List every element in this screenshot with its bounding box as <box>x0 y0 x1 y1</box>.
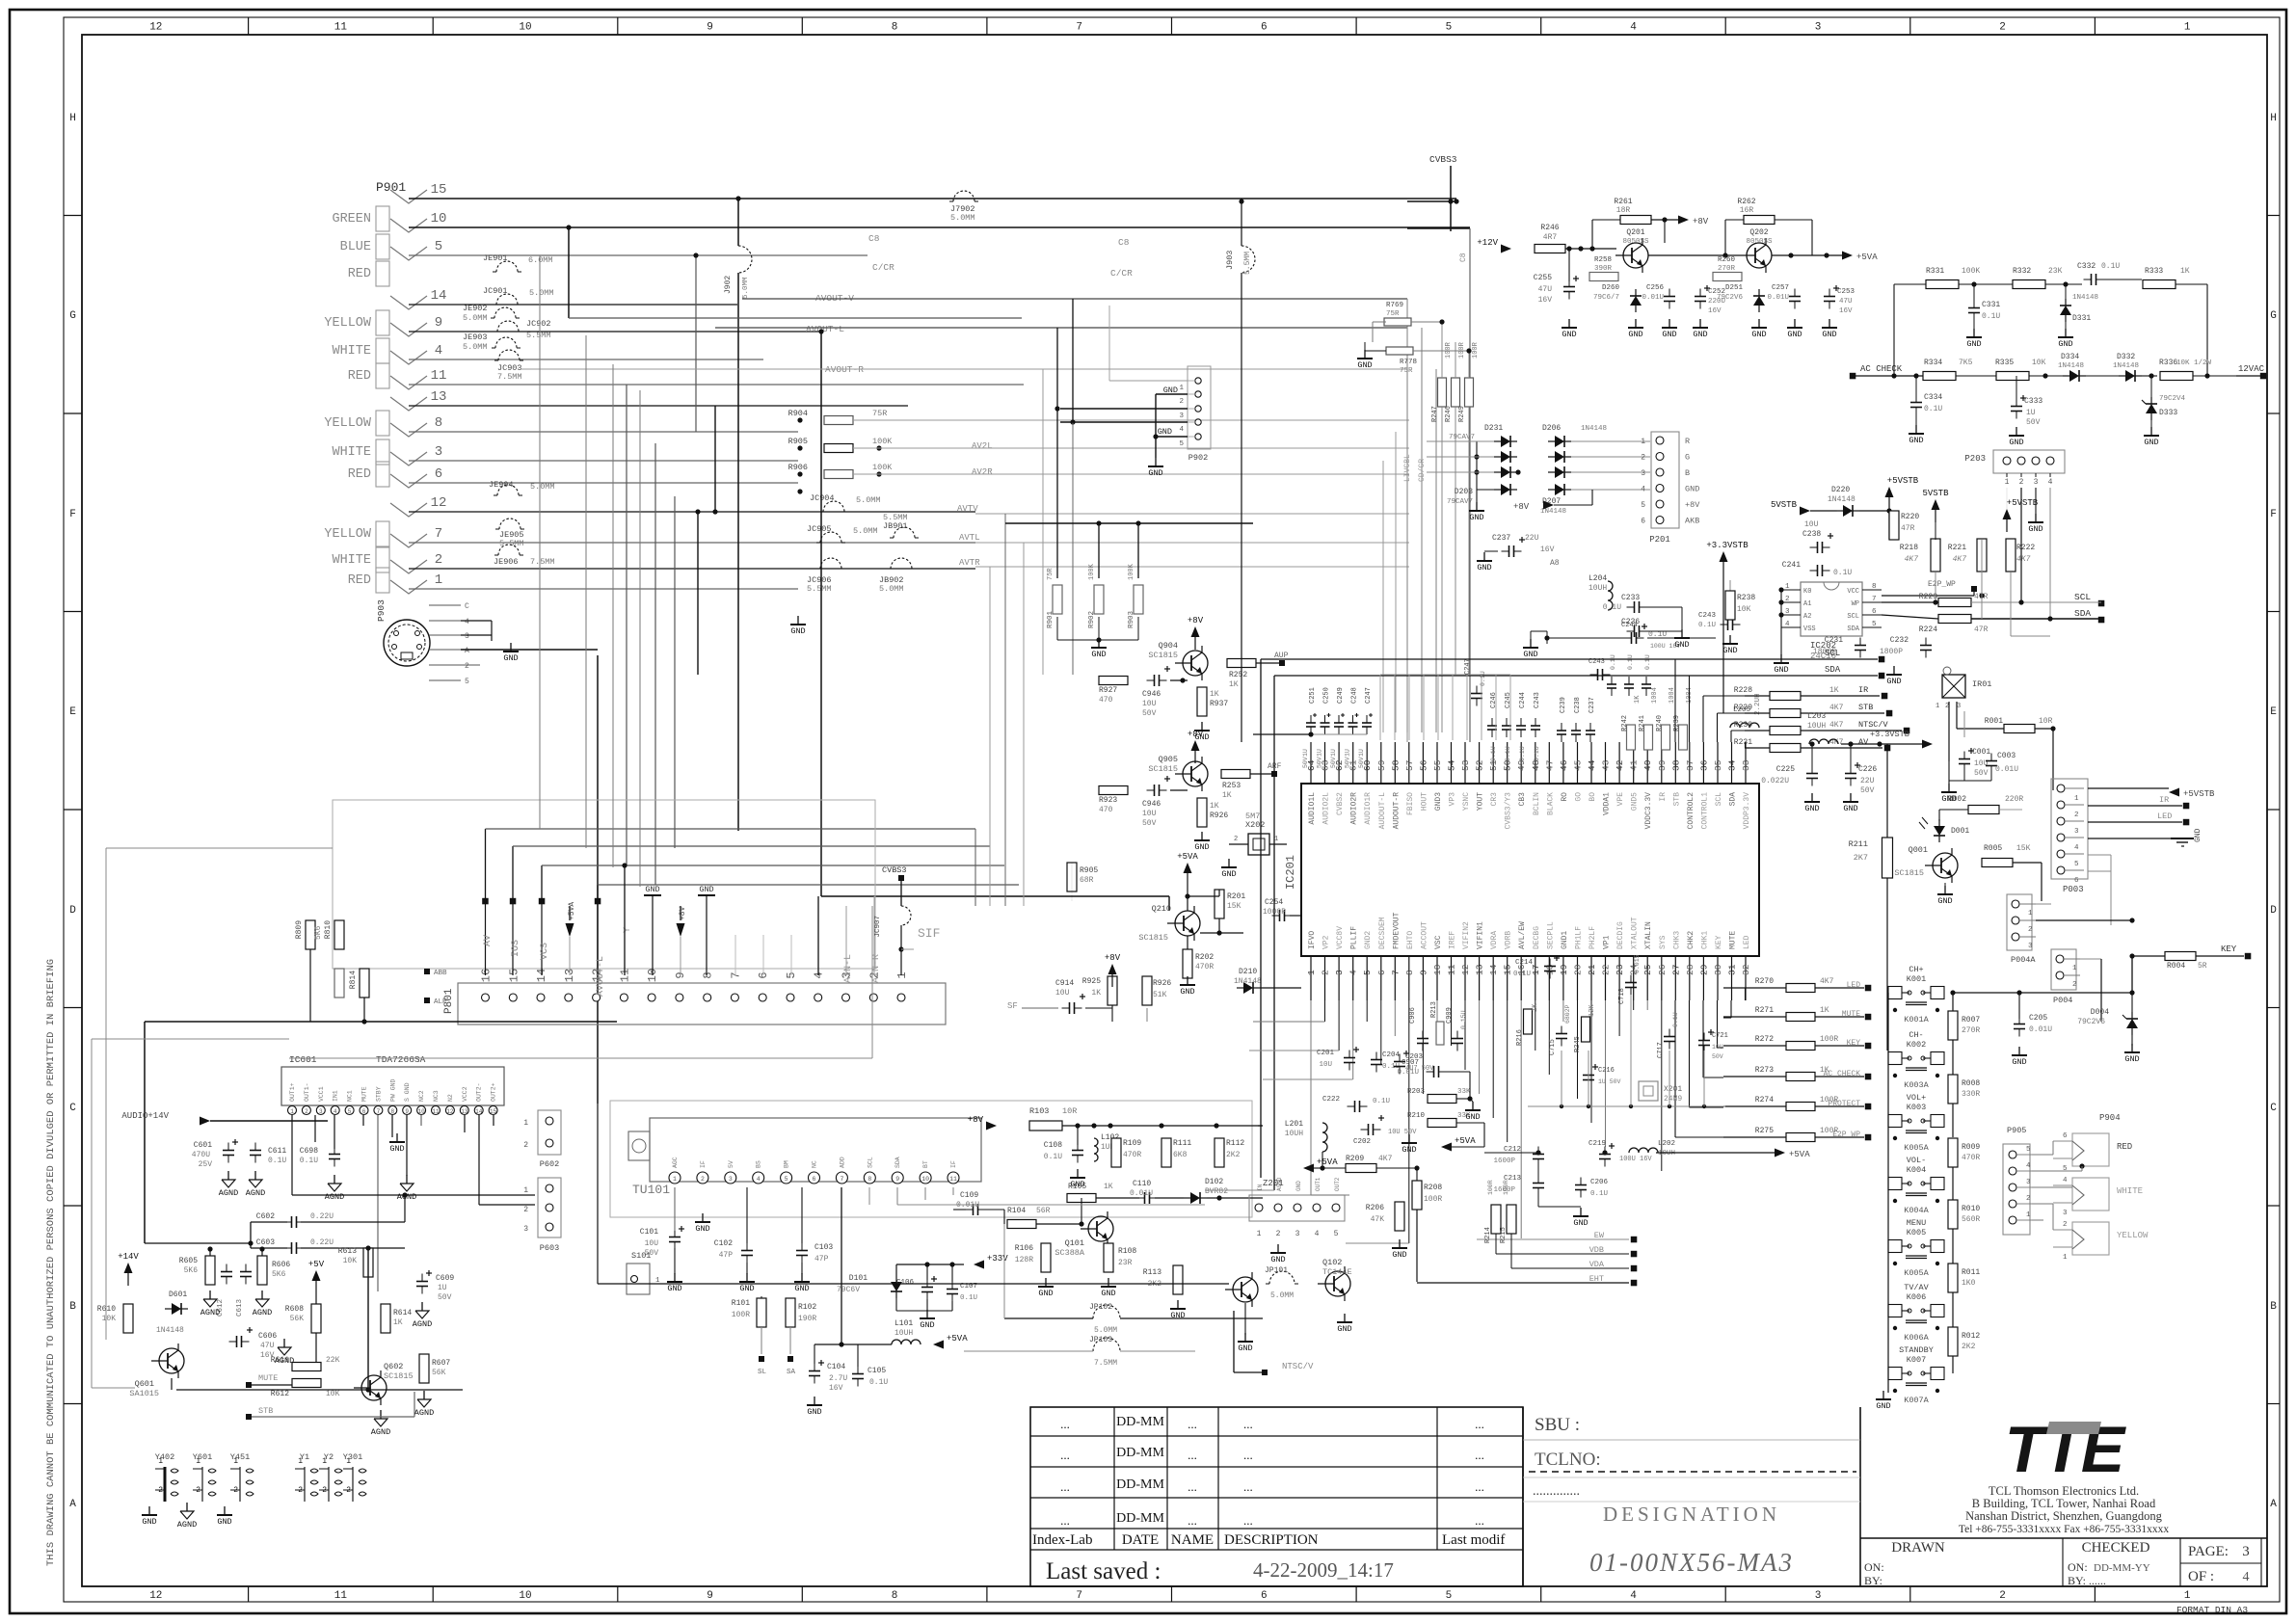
resistor R902 <box>1094 585 1104 614</box>
svg-text:GND: GND <box>1221 869 1236 879</box>
svg-text:1U: 1U <box>1317 749 1323 757</box>
svg-text:79C2V6: 79C2V6 <box>2077 1018 2105 1026</box>
svg-text:IF: IF <box>700 1160 707 1168</box>
capacitor C601 <box>223 1150 234 1152</box>
svg-text:K006A: K006A <box>1904 1333 1929 1343</box>
resistor R101 <box>757 1298 766 1327</box>
svg-text:K003: K003 <box>1907 1103 1926 1112</box>
svg-text:R216: R216 <box>1516 1029 1524 1046</box>
power 5VSTB label left <box>1800 507 1810 516</box>
resistor R109 <box>1111 1138 1121 1167</box>
svg-text:K005A: K005A <box>1904 1268 1929 1278</box>
connector Z201 <box>1249 1177 1345 1238</box>
svg-text:BM: BM <box>784 1160 790 1168</box>
resistor R608 <box>311 1304 321 1333</box>
inductor L101 <box>892 1340 921 1344</box>
resistor R904 <box>824 416 853 425</box>
svg-text:R242: R242 <box>1621 715 1629 732</box>
svg-text:11: 11 <box>1447 964 1457 975</box>
svg-text:SDA: SDA <box>1729 792 1738 807</box>
svg-text:24M9: 24M9 <box>1664 1095 1682 1104</box>
wire bus join to IC top <box>1380 675 1510 742</box>
svg-text:9: 9 <box>895 1176 899 1183</box>
svg-text:R102: R102 <box>798 1303 816 1312</box>
svg-text:BVR82: BVR82 <box>1205 1187 1228 1196</box>
svg-text:L202: L202 <box>1658 1140 1675 1148</box>
svg-text:0.1U: 0.1U <box>1490 746 1497 761</box>
svg-text:5: 5 <box>1334 1230 1339 1238</box>
svg-text:59: 59 <box>1376 759 1387 771</box>
svg-text:47U: 47U <box>1538 285 1553 294</box>
svg-text:AUDIO1L: AUDIO1L <box>1308 792 1317 825</box>
ground C331 <box>1973 329 1975 337</box>
resistor R105 <box>1067 1194 1096 1203</box>
svg-text:R012: R012 <box>1962 1332 1980 1341</box>
capacitor C103 <box>796 1250 808 1252</box>
jumper JE904 <box>497 485 519 495</box>
svg-text:R246: R246 <box>1540 224 1559 232</box>
capacitor C605 <box>236 1336 238 1347</box>
svg-text:DD-MM: DD-MM <box>1116 1446 1164 1460</box>
svg-text:R901: R901 <box>1047 610 1055 628</box>
svg-text:33: 33 <box>1741 759 1751 771</box>
svg-text:47U: 47U <box>260 1342 275 1350</box>
svg-text:470U: 470U <box>192 1151 210 1159</box>
svg-text:7K5: 7K5 <box>1959 359 1973 367</box>
resistor R229 STB <box>1770 709 1801 718</box>
ground Y451 <box>224 1506 226 1515</box>
svg-text:R220: R220 <box>1901 513 1919 521</box>
switch K001 CH+ <box>1888 965 1944 1024</box>
svg-text:5R: 5R <box>2198 962 2207 971</box>
svg-text:0.1U: 0.1U <box>300 1157 318 1165</box>
diode D210 <box>1243 982 1253 994</box>
resistor R333 <box>2143 280 2176 289</box>
svg-text:C331: C331 <box>1982 301 2000 309</box>
svg-text:1600P: 1600P <box>1493 1157 1515 1165</box>
resistor R106 <box>1041 1243 1051 1272</box>
svg-text:79CAV7: 79CAV7 <box>1447 498 1473 506</box>
svg-text:ABB: ABB <box>434 970 447 977</box>
svg-text:10U: 10U <box>1055 989 1070 998</box>
svg-text:0.01U: 0.01U <box>1995 765 2018 774</box>
svg-text:D333: D333 <box>2159 409 2177 417</box>
capacitor C914 <box>1069 1002 1071 1014</box>
svg-text:STBY: STBY <box>375 1086 382 1102</box>
svg-text:SCL: SCL <box>1825 649 1840 658</box>
resistor R903 <box>1134 585 1143 614</box>
svg-text:12VAC: 12VAC <box>2238 364 2265 374</box>
svg-text:C206: C206 <box>1590 1179 1609 1186</box>
svg-text:0.1U: 0.1U <box>1610 654 1616 670</box>
net labels top bus <box>806 233 1133 568</box>
svg-text:R614: R614 <box>393 1309 412 1317</box>
svg-text:GND: GND <box>1787 330 1802 339</box>
svg-text:VPE: VPE <box>1616 792 1625 807</box>
svg-text:PROTECT: PROTECT <box>1828 1100 1860 1108</box>
svg-text:C602: C602 <box>256 1212 275 1221</box>
svg-text:...: ... <box>1243 1479 1253 1494</box>
jumper JE902 <box>494 307 516 318</box>
svg-text:4: 4 <box>2048 478 2053 487</box>
svg-text:CVBS2: CVBS2 <box>1336 792 1345 815</box>
svg-text:GND: GND <box>1180 987 1194 997</box>
ground C907 <box>1472 1102 1474 1110</box>
svg-text:3: 3 <box>1641 469 1645 478</box>
svg-text:45: 45 <box>1573 759 1584 771</box>
svg-text:J903: J903 <box>1225 251 1235 270</box>
svg-text:B: B <box>1685 468 1690 478</box>
svg-text:G: G <box>69 310 76 322</box>
capacitor C717 <box>1664 1036 1675 1038</box>
svg-text:CB3: CB3 <box>1518 792 1527 807</box>
svg-text:22K: 22K <box>326 1356 340 1365</box>
svg-text:GND: GND <box>2009 438 2023 447</box>
power +5VA L201 <box>1303 1164 1314 1173</box>
svg-text:R209: R209 <box>1346 1155 1364 1163</box>
svg-text:10: 10 <box>519 1590 531 1602</box>
switch K003 VOL+ <box>1888 1093 1944 1153</box>
svg-text:SC1815: SC1815 <box>1148 764 1178 774</box>
svg-text:100R: 100R <box>1472 341 1480 359</box>
resistor R246 <box>1535 245 1565 253</box>
diode D601 <box>172 1303 181 1315</box>
svg-text:C333: C333 <box>2024 397 2042 406</box>
svg-text:+8V: +8V <box>968 1115 984 1125</box>
resistor R005 <box>1982 859 2013 867</box>
capacitor C721 <box>1698 1040 1710 1042</box>
svg-text:C225: C225 <box>1776 765 1795 774</box>
resistor R610 <box>123 1304 133 1333</box>
svg-text:JP102: JP102 <box>1089 1303 1112 1312</box>
capacitor C243 top <box>1597 669 1599 680</box>
svg-text:15: 15 <box>431 182 447 198</box>
svg-text:ADD: ADD <box>839 1157 845 1168</box>
svg-text:BLUE: BLUE <box>340 240 371 254</box>
svg-text:AC CHECK: AC CHECK <box>1860 364 1903 374</box>
svg-text:C241: C241 <box>1782 561 1801 570</box>
ground AGND C611 <box>254 1171 256 1180</box>
svg-text:CH+: CH+ <box>1909 965 1923 974</box>
svg-text:3: 3 <box>1785 608 1790 616</box>
wire P203 pins down <box>1933 488 2052 636</box>
svg-text:GND3: GND3 <box>1434 792 1443 811</box>
svg-text:VSC: VSC <box>1434 935 1443 949</box>
svg-text:5.0MM: 5.0MM <box>742 277 750 299</box>
resistor R113 <box>1173 1265 1183 1294</box>
jumper JE901 <box>496 261 518 272</box>
power +5VA arrow P801 pin13 <box>566 902 577 975</box>
resistor R331 <box>1926 280 1959 289</box>
diode D203 <box>1501 484 1510 495</box>
capacitor C105 <box>852 1373 864 1375</box>
svg-text:...: ... <box>1060 1513 1070 1528</box>
svg-text:10: 10 <box>1432 964 1443 975</box>
svg-text:+3.3VSTB: +3.3VSTB <box>1870 730 1909 739</box>
svg-text:GND: GND <box>1843 804 1857 813</box>
svg-text:K001A: K001A <box>1904 1015 1929 1024</box>
svg-text:...: ... <box>1188 1448 1197 1462</box>
svg-text:16R: 16R <box>1740 206 1754 215</box>
svg-text:F: F <box>69 509 76 520</box>
svg-text:GND: GND <box>1562 330 1576 339</box>
wire IC202 left rail <box>1778 587 1783 655</box>
svg-text:5VSTB: 5VSTB <box>1771 500 1798 510</box>
svg-text:470: 470 <box>1099 696 1113 705</box>
svg-text:1: 1 <box>1785 583 1790 591</box>
svg-text:Nanshan District, Shenzhen, Gu: Nanshan District, Shenzhen, Guangdong <box>1965 1509 2163 1523</box>
ground P801 pin8 <box>698 885 715 975</box>
svg-text:K005: K005 <box>1907 1228 1926 1237</box>
resistor R259 <box>1589 273 1618 281</box>
svg-text:K007A: K007A <box>1904 1396 1929 1405</box>
resistor R270 LED <box>1723 977 1871 993</box>
ground Q201 cluster <box>1562 319 1708 339</box>
svg-text:C204: C204 <box>1382 1051 1401 1059</box>
resistor R923 <box>1099 786 1128 795</box>
svg-text:R240: R240 <box>1656 715 1664 732</box>
svg-text:R253: R253 <box>1222 782 1241 790</box>
ground AGND pin8 <box>406 1175 408 1184</box>
svg-text:C606: C606 <box>258 1332 277 1341</box>
svg-text:2: 2 <box>2019 478 2024 487</box>
connector P602 <box>523 1110 561 1169</box>
svg-text:C105: C105 <box>868 1367 886 1375</box>
svg-text:Y1: Y1 <box>300 1452 309 1462</box>
svg-text:4K7: 4K7 <box>1829 704 1844 712</box>
resistor R108 <box>1104 1243 1113 1272</box>
svg-text:1K: 1K <box>393 1318 403 1327</box>
svg-text:79C2V6: 79C2V6 <box>1717 294 1744 302</box>
svg-text:Tel +86-755-3331xxxx Fax +86-: Tel +86-755-3331xxxx Fax +86-755-3331xxx… <box>1959 1524 2169 1535</box>
svg-text:YOUT: YOUT <box>1477 792 1485 811</box>
wire AV2 node <box>92 949 617 1243</box>
capacitor C102 <box>741 1250 753 1252</box>
svg-text:56K: 56K <box>290 1315 305 1323</box>
resistor R905b <box>1067 863 1077 891</box>
svg-text:3: 3 <box>2028 943 2033 950</box>
svg-text:+8V: +8V <box>679 906 687 920</box>
svg-text:...: ... <box>1475 1417 1484 1431</box>
svg-text:AGND: AGND <box>219 1188 238 1198</box>
svg-text:79CAV7: 79CAV7 <box>1449 434 1475 441</box>
resistor R011 <box>1948 1264 1958 1292</box>
svg-text:J902: J902 <box>724 276 733 294</box>
svg-text:JE902: JE902 <box>463 304 488 313</box>
svg-text:1: 1 <box>895 971 909 978</box>
svg-text:XTALOUT: XTALOUT <box>1631 917 1640 949</box>
svg-text:AC CHECK: AC CHECK <box>1824 1070 1861 1078</box>
resistor R926c <box>1142 976 1152 1005</box>
svg-text:1K: 1K <box>1210 802 1219 811</box>
svg-text:16V: 16V <box>829 1384 843 1393</box>
svg-text:AGND: AGND <box>246 1188 265 1198</box>
svg-text:8050SS: 8050SS <box>1746 238 1773 246</box>
capacitor C257 <box>1789 296 1801 298</box>
svg-text:1N4148: 1N4148 <box>1540 508 1566 516</box>
svg-text:5.5MM: 5.5MM <box>883 513 908 522</box>
svg-text:7: 7 <box>1076 22 1082 34</box>
svg-text:TU101: TU101 <box>632 1183 670 1197</box>
capacitor C946b <box>1154 785 1156 796</box>
svg-text:PLLIF: PLLIF <box>1350 926 1359 949</box>
svg-text:2: 2 <box>1785 596 1790 603</box>
svg-text:R005: R005 <box>1984 844 2002 853</box>
svg-text:C216: C216 <box>1598 1067 1615 1075</box>
svg-text:C909: C909 <box>1446 1007 1454 1024</box>
svg-text:GND: GND <box>217 1517 231 1527</box>
svg-text:GND: GND <box>1822 330 1836 339</box>
svg-text:8: 8 <box>390 1108 394 1115</box>
svg-text:21: 21 <box>1587 964 1597 975</box>
wire tuner pin10-11 <box>924 1187 926 1200</box>
svg-text:1: 1 <box>2063 1254 2068 1262</box>
svg-text:IF: IF <box>950 1160 957 1168</box>
svg-text:JC907: JC907 <box>874 916 882 938</box>
capacitor C001 <box>1959 758 1970 760</box>
svg-text:C237: C237 <box>1492 534 1510 543</box>
svg-text:31: 31 <box>1727 964 1738 975</box>
power +5VSTB P203 <box>2003 509 2012 519</box>
svg-text:VP2: VP2 <box>1322 935 1331 949</box>
svg-text:10: 10 <box>431 211 447 226</box>
svg-text:HOUT: HOUT <box>1420 792 1428 811</box>
svg-text:330R: 330R <box>1962 1090 1980 1099</box>
svg-text:C102: C102 <box>714 1239 733 1248</box>
svg-text:8: 8 <box>1404 970 1415 975</box>
wire stair bus verticals <box>486 196 824 1104</box>
svg-text:5: 5 <box>1362 970 1373 975</box>
svg-text:2: 2 <box>1276 1230 1281 1238</box>
svg-text:OUT1-: OUT1- <box>304 1082 310 1102</box>
svg-text:1U: 1U <box>438 1284 447 1292</box>
svg-text:2: 2 <box>1234 836 1238 843</box>
svg-text:R814: R814 <box>349 971 358 989</box>
svg-text:C214: C214 <box>1515 959 1534 967</box>
svg-text:AGND: AGND <box>414 1408 434 1418</box>
svg-text:R923: R923 <box>1099 796 1117 805</box>
svg-text:K001: K001 <box>1907 974 1926 984</box>
svg-text:GND: GND <box>389 1144 404 1154</box>
resistor R242 <box>1627 725 1636 750</box>
svg-text:BCLIN: BCLIN <box>1533 792 1541 815</box>
svg-text:0.1U: 0.1U <box>1603 603 1621 612</box>
svg-text:13: 13 <box>1475 964 1485 975</box>
svg-text:11: 11 <box>949 1176 957 1183</box>
svg-text:5.0MM: 5.0MM <box>1094 1326 1117 1335</box>
resistor R203 <box>1428 1095 1456 1104</box>
svg-text:C205: C205 <box>2029 1014 2047 1023</box>
connector P901 <box>324 180 446 594</box>
capacitor C253 <box>1824 296 1835 298</box>
svg-text:30: 30 <box>1713 964 1723 975</box>
svg-text:..............: .............. <box>1533 1484 1580 1499</box>
resistor R607 <box>419 1354 429 1383</box>
svg-text:R101: R101 <box>732 1299 750 1308</box>
svg-text:470R: 470R <box>1962 1154 1980 1162</box>
svg-text:AV2R: AV2R <box>972 467 993 477</box>
wire SIF run <box>289 906 1147 1058</box>
svg-text:GND: GND <box>1469 513 1483 522</box>
svg-text:1: 1 <box>2005 478 2010 487</box>
svg-text:25: 25 <box>1642 964 1653 975</box>
resistor R009 <box>1948 1138 1958 1167</box>
crystal Y402 <box>164 1467 167 1502</box>
svg-text:GND: GND <box>1194 842 1209 852</box>
resistor R937 <box>1197 687 1207 716</box>
svg-text:220R: 220R <box>2005 795 2023 804</box>
svg-text:C237: C237 <box>1589 697 1596 713</box>
svg-text:NC1: NC1 <box>347 1090 354 1102</box>
svg-text:58: 58 <box>1390 759 1401 771</box>
svg-text:0.1U: 0.1U <box>1480 671 1486 686</box>
svg-text:GND: GND <box>1038 1289 1053 1298</box>
svg-text:0.1U: 0.1U <box>1519 746 1526 761</box>
svg-text:GND: GND <box>739 1284 754 1293</box>
svg-text:40: 40 <box>1642 759 1653 771</box>
svg-text:AGND: AGND <box>413 1319 432 1329</box>
diode D260 <box>1630 296 1642 306</box>
svg-text:P903: P903 <box>376 599 387 622</box>
svg-text:1: 1 <box>2184 22 2191 34</box>
svg-text:LED: LED <box>1743 935 1751 949</box>
svg-text:L201: L201 <box>1285 1120 1303 1129</box>
wire P801 small stubs <box>735 896 818 975</box>
ground TU101 pin2 <box>702 1213 704 1222</box>
svg-text:+5VSTB: +5VSTB <box>1887 476 1919 486</box>
svg-text:DECSDEM: DECSDEM <box>1378 917 1387 949</box>
svg-text:YELLOW: YELLOW <box>324 527 372 542</box>
svg-text:5.0MM: 5.0MM <box>879 584 904 594</box>
capacitor C243b <box>1727 619 1729 630</box>
ground C202 <box>1408 1134 1410 1143</box>
svg-text:100R: 100R <box>1445 341 1453 359</box>
svg-text:C250: C250 <box>1323 687 1331 704</box>
ground C103 <box>801 1273 803 1282</box>
svg-text:18R: 18R <box>1616 206 1631 215</box>
svg-text:AVOUT-L: AVOUT-L <box>596 956 606 997</box>
svg-text:C721: C721 <box>1712 1032 1728 1040</box>
wire jumper runs <box>964 1224 1263 1351</box>
svg-text:100R: 100R <box>1458 341 1466 359</box>
svg-text:5.0MM: 5.0MM <box>530 482 555 492</box>
svg-text:GND: GND <box>1337 1324 1351 1334</box>
svg-text:C603: C603 <box>256 1238 275 1247</box>
svg-text:VDRB: VDRB <box>1505 931 1513 949</box>
svg-text:6: 6 <box>362 1108 366 1115</box>
jumper JE906 <box>498 545 520 555</box>
svg-text:PW GND: PW GND <box>389 1078 396 1102</box>
svg-text:0.1U: 0.1U <box>1505 746 1511 761</box>
svg-text:C003: C003 <box>1997 752 2016 760</box>
svg-text:0.022U: 0.022U <box>1761 777 1789 785</box>
svg-text:P201: P201 <box>1649 535 1670 545</box>
wire bottom long rail <box>479 1104 1229 1390</box>
svg-text:CR3: CR3 <box>1490 792 1499 807</box>
svg-text:R211: R211 <box>1849 839 1868 849</box>
svg-text:WHITE: WHITE <box>332 445 371 460</box>
capacitor C242 group <box>1487 692 1541 761</box>
svg-text:F: F <box>2270 509 2277 520</box>
svg-text:5.0MM: 5.0MM <box>856 495 881 505</box>
svg-text:4: 4 <box>813 971 826 978</box>
svg-text:GND: GND <box>1477 563 1491 572</box>
power +3.3VSTB arrow mid <box>1720 551 1728 562</box>
svg-text:GND: GND <box>667 1284 681 1293</box>
svg-text:+8V: +8V <box>1188 730 1204 739</box>
svg-text:C244: C244 <box>1519 692 1527 708</box>
svg-text:14: 14 <box>431 288 447 304</box>
